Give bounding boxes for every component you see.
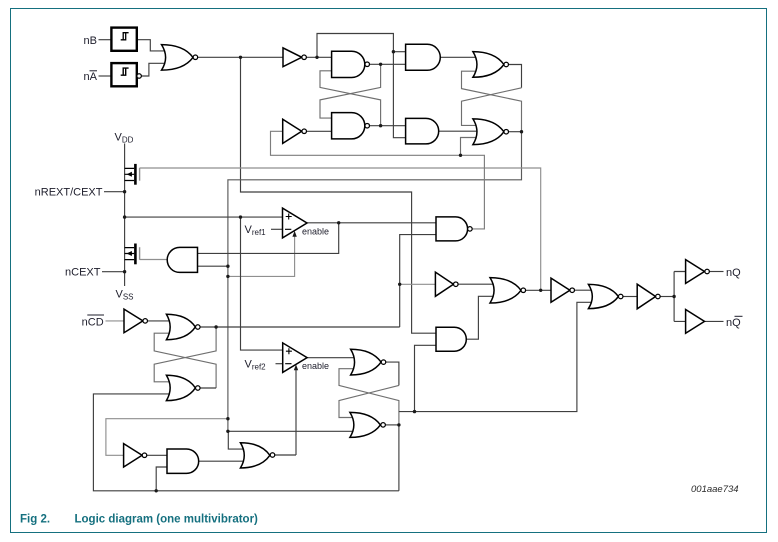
Schmitt trigger U1 (nB input): [111, 28, 136, 51]
svg-text:Logic diagram (one multivibrat: Logic diagram (one multivibrator): [75, 514, 259, 526]
svg-text:nB: nB: [84, 35, 97, 47]
inverter U8 decorations: [142, 453, 147, 458]
wire latch4 cross A (G14 out to G15 in): [339, 385, 399, 417]
NOR gate G17: [588, 284, 618, 308]
inverter U10 decorations: [570, 288, 575, 293]
wire feed to inverter U9 input: [400, 283, 436, 285]
AND gate G5: [406, 118, 439, 143]
wire L2 PMOS gate lead to output net: [140, 168, 541, 290]
overline of A in nA: [90, 70, 98, 72]
junction G3 output: [379, 124, 382, 127]
junction L3 bottom at clear line: [226, 430, 229, 433]
junction L3 to AND G11 tap: [226, 265, 229, 268]
svg-text:nCD: nCD: [82, 316, 104, 328]
svg-text:nREXT/CEXT: nREXT/CEXT: [35, 187, 103, 199]
wire VDD down to PMOS: [124, 144, 126, 287]
inverter U3: [283, 48, 302, 67]
wire G12 out up to NOR G16 lower input: [466, 296, 497, 339]
wire G15 net down to rail: [398, 425, 400, 491]
wire tap to AND G11 bottom input: [198, 265, 228, 267]
wire G17 out to inverter U11: [623, 296, 637, 298]
svg-text:nCEXT: nCEXT: [65, 267, 101, 279]
svg-text:enable: enable: [302, 361, 329, 371]
junction G15 output: [397, 423, 400, 426]
inverter U4: [283, 119, 302, 143]
wire G2 out to AND G4 bottom input: [370, 63, 406, 65]
NAND gate G2: [332, 51, 365, 77]
junction U5 output branch: [337, 221, 340, 224]
wire G13 lower input from NOR G18 net: [400, 235, 436, 327]
arrowhead enable input U6: [294, 364, 298, 370]
junction G8 line to inverter U9 feed: [398, 283, 401, 286]
NOR gate G7 (3-input) decorations: [504, 129, 509, 134]
wire top feedback to AND gates column: [317, 34, 406, 138]
wire NMOS gate lead from AND G11: [140, 259, 168, 261]
inverter U7 decorations: [143, 319, 148, 324]
junction Cx branch down: [239, 215, 242, 218]
NAND gate G2 decorations: [365, 62, 370, 67]
NOR gate G16: [490, 278, 521, 303]
wire G15 net to NOR G17 lower input: [399, 302, 596, 411]
wire clear line to G15 lower input: [228, 430, 357, 432]
AND gate G12 (retrigger AND): [436, 327, 466, 351]
wire latch3 cross A (G8 out to G9 in): [154, 327, 216, 382]
inverter U9 decorations: [454, 282, 459, 287]
NOR gate G1 (trigger NOR): [162, 45, 194, 71]
NOR gate G6: [473, 52, 504, 78]
wire G15 out to feedback verticals: [385, 424, 399, 426]
wire G6 out corner down: [509, 65, 522, 88]
wire nREXT/CEXT to node: [104, 191, 125, 193]
wire G4 out to NOR G6 input: [440, 56, 481, 58]
wire G14 out corner down: [386, 362, 399, 385]
NOR gate G1 (trigger NOR) decorations: [193, 55, 198, 60]
wire tap up to AND G12 bottom input: [415, 345, 437, 411]
NAND gate G13 (retrigger): [436, 217, 468, 241]
wire G9 out to latch3 cross: [200, 387, 216, 389]
NOR gate G6 decorations: [504, 62, 509, 67]
junction G1 output / trigger line: [239, 56, 242, 59]
NOR gate G21: [240, 443, 270, 468]
wire nB to Schmitt box: [99, 39, 112, 41]
NOR gate G8: [166, 314, 195, 340]
wire nCEXT to node: [102, 271, 125, 273]
wire G11 top input from comparator U5 out: [198, 223, 339, 254]
AND gate G10: [167, 449, 199, 473]
wire Cx sense to comparator U5 plus: [125, 216, 283, 218]
inverter U7: [124, 309, 143, 333]
NOR gate G17 decorations: [618, 294, 623, 299]
NOR gate G9: [166, 375, 195, 400]
wire nCD to inverter U7: [106, 320, 125, 322]
NOR gate G16 decorations: [521, 288, 526, 293]
junction on NAND G13 output line L1: [459, 154, 462, 157]
inverter U3 decorations: [302, 55, 307, 60]
wire latch1 cross B (G3 out to G2 in): [320, 71, 381, 126]
wire G8 out long line to G13/inverter feed: [200, 326, 400, 328]
comparator U6 (Vref2): [283, 343, 307, 373]
wire U9 out to NOR G16: [458, 283, 497, 285]
comparator U6 (Vref2) decorations: [285, 348, 292, 364]
AND gate G4: [406, 44, 441, 70]
wire G3 out to AND G5 top input: [370, 125, 406, 127]
wire G16 out to inverter U10: [526, 289, 551, 291]
wire Vref1 stub to U5 minus: [271, 228, 283, 230]
NOR gate G8 decorations: [196, 325, 201, 330]
inverter U11 decorations: [656, 294, 661, 299]
inverter U10: [551, 278, 570, 302]
wire G9 lower input from feedback rail: [93, 394, 399, 491]
AND gate G11 (mirrored, drives Q2 gate): [167, 247, 197, 272]
wire G21 upper input from clear junction: [228, 431, 248, 449]
svg-text:enable: enable: [302, 226, 329, 236]
wire L1 G13 out to U4 input: [271, 131, 485, 229]
junction L3 to enable1 tap: [226, 275, 229, 278]
svg-text:nA: nA: [84, 71, 98, 83]
wire enable1 L to comparator U5: [228, 237, 295, 277]
wire L3 rail (G7 out down-left-down): [228, 132, 522, 432]
inverter U8: [124, 444, 143, 467]
wire Vref2 stub to U6 minus: [276, 363, 283, 365]
wire stub to AND G4 top input: [393, 51, 405, 53]
junction rail to AND G10 tap: [155, 489, 158, 492]
wire trigger line down-right to AND G12 top input: [241, 57, 437, 333]
junction G7 output: [520, 130, 523, 133]
wire nA to Schmitt box: [99, 75, 112, 77]
inverter U12 (nQ driver) decorations: [705, 269, 710, 274]
wire G7 third input from node L1: [461, 138, 482, 156]
wire gray feed to inverter U8 input: [106, 419, 228, 456]
transistor Q1 (PMOS): [134, 164, 137, 185]
wire G7 out to gray net: [509, 131, 522, 133]
wire split to buffers: [674, 272, 686, 322]
junction L2 at NOR G16 output: [539, 289, 542, 292]
junction REXT/CEXT node: [123, 190, 126, 193]
wire U5 out to NAND G13: [307, 222, 436, 224]
wire enable2 from NOR G21 up to U6: [295, 370, 297, 455]
wire U12 out to nQ: [709, 271, 723, 273]
wire G10 lower input from rail: [156, 467, 167, 491]
NAND gate G13 (retrigger) decorations: [468, 227, 473, 232]
wire U7 out to NOR G8: [148, 320, 175, 322]
junction G15 net to AND G12 tap: [413, 410, 416, 413]
inverter U9: [435, 272, 453, 296]
wire latch4 cross B (G15 out to G14 in): [339, 369, 399, 425]
svg-text:nQ: nQ: [726, 317, 741, 329]
transistor Q2 (NMOS): [134, 244, 137, 265]
comparator U5 (Vref1): [283, 208, 308, 238]
wire U13 out to nQb: [705, 320, 724, 322]
svg-text:001aae734: 001aae734: [691, 484, 739, 495]
NOR gate G14 decorations: [381, 360, 386, 365]
junction G8 output: [214, 325, 217, 328]
NOR gate G15: [350, 412, 381, 437]
NOR gate G9 decorations: [196, 386, 201, 391]
NOR gate G21 decorations: [270, 453, 275, 458]
wire Cx branch to comparator U6 plus: [241, 217, 283, 350]
wire latch2 cross B (G7 out to G6 in): [462, 71, 522, 132]
svg-text:nQ: nQ: [726, 267, 741, 279]
junction nCEXT node: [123, 270, 126, 273]
wire G5 out to NOR G7 mid input: [439, 130, 481, 132]
inverter U11: [637, 284, 655, 309]
wire G10 out to NOR G21: [199, 460, 248, 462]
overline of Q in nQ-bar: [735, 315, 743, 317]
overline of CD in nCD: [87, 314, 104, 316]
arrowhead enable input U5: [292, 231, 296, 237]
wire U4 out to G3 bottom input: [307, 130, 332, 132]
NOR gate G7 (3-input): [473, 119, 504, 145]
inverter U4 decorations: [302, 129, 307, 134]
wire G1 out to inverter U3: [198, 56, 283, 58]
buffer U13 (nQ-bar driver): [686, 310, 705, 334]
wire latch3 cross B (G9 out to G8 in): [154, 333, 216, 388]
wire latch1 cross A (G2 out to G3 in): [320, 64, 381, 118]
wire U3 out to NAND G2: [306, 56, 331, 58]
wire U1 out to NOR G1 top input: [137, 40, 170, 51]
NOR gate G15 decorations: [381, 423, 386, 428]
bubble on U2 output: [137, 74, 142, 79]
junction L3 to inverter U8 feed: [226, 417, 229, 420]
junction feedback to AND G4 input: [392, 50, 395, 53]
wire U6 out to NOR G14 input: [307, 357, 358, 359]
NAND gate G3 decorations: [365, 123, 370, 128]
wire U2 out to NOR G1 bottom input: [141, 63, 170, 76]
inverter U12 (nQ driver): [686, 260, 705, 284]
NAND gate G3: [332, 113, 365, 139]
comparator U5 (Vref1) decorations: [285, 214, 292, 230]
junction output split: [672, 295, 675, 298]
Schmitt trigger U2 (nA input): [111, 63, 136, 86]
wire U10 out to NOR G17: [575, 289, 597, 291]
wire G21 out to enable line: [275, 454, 296, 456]
NOR gate G14: [351, 349, 382, 375]
junction U3 out / top feedback: [315, 56, 318, 59]
wire latch2 cross A (G6 out to G7 in): [462, 88, 522, 126]
svg-text:Fig 2.: Fig 2.: [20, 514, 50, 526]
wire U11 out to output split: [660, 296, 674, 298]
junction Cx line: [123, 215, 126, 218]
wire U8 out to AND G10: [147, 454, 167, 456]
junction G2 output: [379, 63, 382, 66]
